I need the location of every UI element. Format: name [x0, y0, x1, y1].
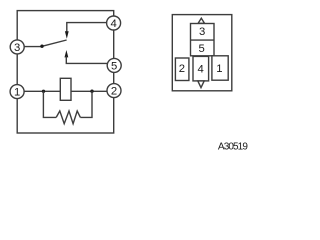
terminal circle 4 — [107, 16, 121, 30]
wire pin4 to NO contact — [67, 23, 107, 33]
resistor R — [56, 111, 80, 124]
svg-text:4: 4 — [110, 18, 116, 30]
relay outline — [17, 11, 114, 133]
divider between pin 3 and pin 5 — [191, 39, 215, 41]
svg-text:2: 2 — [111, 86, 117, 98]
relay coil — [60, 78, 71, 100]
pin box 2 — [175, 58, 189, 81]
resistor branch wire right — [80, 91, 92, 117]
pin box 4 — [193, 56, 209, 81]
connector outline — [172, 15, 232, 91]
terminal circle 2 — [107, 84, 121, 98]
connector guide arrow up — [198, 18, 204, 23]
svg-text:5: 5 — [199, 43, 205, 55]
terminal circle 3 — [10, 40, 24, 54]
junction dot coil right — [90, 90, 93, 93]
coil wire pin1 to pin2 — [24, 90, 107, 92]
wire NC contact to pin5 — [66, 56, 107, 63]
NO contact arrow (down) — [65, 31, 69, 39]
svg-text:2: 2 — [179, 63, 185, 75]
svg-text:4: 4 — [197, 63, 203, 75]
svg-text:1: 1 — [14, 87, 20, 99]
NC contact arrow (up) — [65, 50, 69, 57]
resistor branch wire — [43, 91, 56, 117]
terminal circle 1 — [10, 85, 24, 99]
armature arm — [42, 40, 67, 46]
pin box 1 — [212, 56, 228, 80]
svg-text:A30519: A30519 — [218, 142, 248, 153]
junction dot armature — [40, 45, 43, 48]
wire pin3 to armature pivot — [24, 46, 42, 48]
svg-text:3: 3 — [14, 42, 20, 54]
junction dot coil left — [42, 90, 45, 93]
terminal circle 5 — [107, 58, 121, 72]
pin box 3 and 5 column — [191, 24, 215, 56]
svg-text:5: 5 — [111, 60, 117, 72]
connector guide arrow down — [198, 81, 204, 88]
svg-text:3: 3 — [199, 26, 205, 38]
svg-text:1: 1 — [216, 63, 222, 75]
